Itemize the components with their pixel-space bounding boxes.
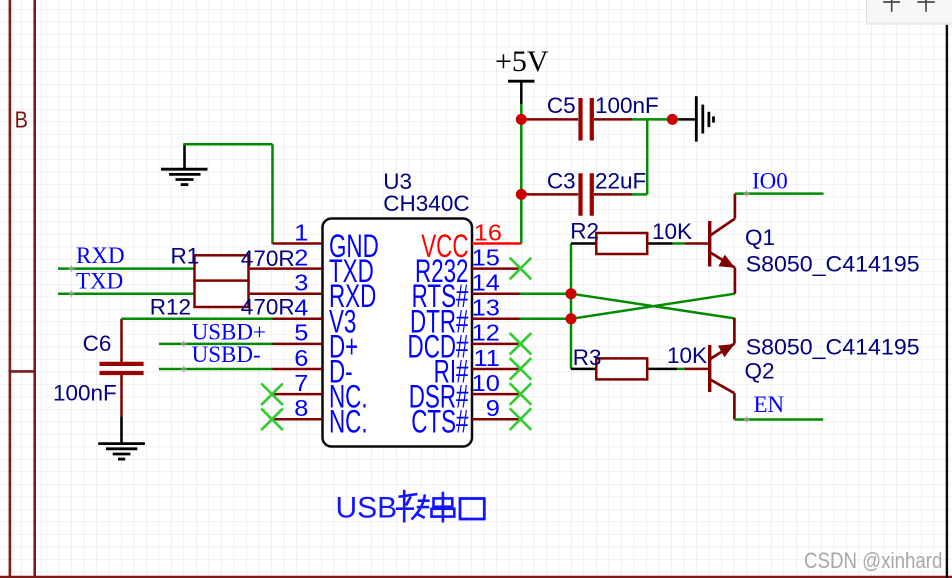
pin 12 — [472, 343, 520, 346]
svg-text:TXD: TXD — [76, 268, 123, 293]
svg-text:22uF: 22uF — [595, 169, 646, 194]
svg-text:100nF: 100nF — [53, 380, 117, 405]
svg-text:CSDN @xinhard: CSDN @xinhard — [804, 550, 942, 574]
Q2 emitter arrow — [718, 344, 735, 357]
toolbar plus icon 2 — [917, 0, 934, 12]
svg-text:R12: R12 — [150, 295, 191, 320]
svg-text:RXD: RXD — [76, 243, 125, 268]
svg-text:USBD+: USBD+ — [192, 319, 266, 344]
pin 3 RXD — [249, 292, 323, 295]
svg-text:R1: R1 — [171, 244, 200, 269]
svg-text:10K: 10K — [667, 343, 707, 368]
X pin 7 — [261, 383, 283, 405]
wire V3 — [122, 318, 273, 321]
resistor R3 wires — [571, 368, 596, 371]
svg-text:470R: 470R — [241, 295, 295, 320]
resistor R2 body — [596, 233, 647, 254]
hand-drawn 转 — [396, 490, 430, 523]
svg-text:NC.: NC. — [329, 404, 368, 440]
IC U3 right pins 15..9 — [472, 269, 520, 420]
capacitor C6 plates — [100, 362, 144, 366]
svg-text:8: 8 — [294, 396, 308, 422]
svg-text:1: 1 — [294, 220, 308, 246]
wire D- — [159, 368, 273, 371]
pin 9 — [472, 418, 520, 421]
pin 5 D+ — [273, 343, 323, 346]
sheet border left vertical line 2 — [33, 0, 36, 578]
svg-text:S8050_C414195: S8050_C414195 — [746, 334, 920, 360]
wire TXD — [58, 292, 195, 295]
svg-text:Q2: Q2 — [745, 359, 775, 384]
junction dot +5V/C5 — [516, 114, 527, 125]
junction dot C5/ground — [667, 114, 678, 125]
svg-text:USBD-: USBD- — [192, 342, 261, 367]
svg-text:10K: 10K — [652, 219, 692, 244]
capacitor C3 — [526, 193, 578, 196]
tiny wire anchor ticks — [69, 191, 750, 423]
svg-text:R2: R2 — [570, 219, 599, 244]
X pin 11 — [510, 358, 532, 380]
X pin 9 — [510, 408, 532, 430]
svg-text:14: 14 — [472, 270, 500, 296]
svg-text:12: 12 — [472, 321, 500, 347]
svg-text:C3: C3 — [547, 169, 576, 194]
resistor R2 wires — [571, 242, 596, 245]
svg-text:9: 9 — [486, 396, 500, 422]
hand-drawn 串 — [432, 492, 455, 523]
svg-text:+5V: +5V — [495, 45, 549, 78]
svg-text:CTS#: CTS# — [411, 404, 469, 440]
Q1 emitter arrow — [718, 255, 735, 268]
svg-text:4: 4 — [294, 295, 308, 321]
svg-text:470R: 470R — [241, 246, 295, 271]
pin 4 V3 — [273, 318, 323, 321]
pin 10 — [472, 393, 520, 396]
wire D+ — [159, 343, 273, 346]
capacitor C5 — [526, 118, 578, 121]
pin 15 — [472, 267, 520, 270]
ground (right of C5, rotated) — [679, 96, 714, 141]
svg-text:C5: C5 — [547, 93, 576, 118]
pin 2 TXD — [249, 267, 323, 270]
svg-text:R3: R3 — [573, 345, 602, 370]
no-connect X marks — [261, 258, 531, 430]
wire C5/C3 branch vertical — [646, 119, 649, 194]
svg-text:15: 15 — [472, 245, 500, 271]
pin 13 — [472, 318, 520, 321]
wire pin13 to node — [520, 318, 572, 321]
svg-text:C6: C6 — [83, 331, 112, 356]
svg-text:B: B — [15, 106, 28, 133]
wire C3 right — [632, 193, 647, 196]
svg-text:16: 16 — [474, 220, 502, 246]
svg-text:5: 5 — [294, 321, 308, 347]
svg-text:USB: USB — [336, 492, 398, 525]
wire pin14 to node — [520, 292, 572, 295]
capacitor C6 pin down — [120, 375, 123, 417]
pin 1 GND — [273, 242, 323, 245]
wire diagonal pin13 to Q1 emitter — [571, 294, 735, 319]
junction dot node DTR — [566, 313, 577, 324]
X pin 12 — [510, 333, 532, 355]
resistor R1 (box) — [195, 255, 249, 281]
pin 6 D- — [273, 368, 323, 371]
toolbar plus icon 1 — [883, 0, 900, 12]
junction dot +5V/C3 — [516, 189, 527, 200]
wire +5V vertical — [520, 104, 523, 244]
pin 7 NC — [273, 393, 323, 396]
svg-text:S8050_C414195: S8050_C414195 — [746, 251, 920, 277]
wire EN — [734, 418, 823, 421]
wire RXD — [58, 267, 195, 270]
svg-text:10: 10 — [472, 371, 500, 397]
wire vertical node column — [570, 244, 573, 369]
sheet border bottom line — [0, 576, 952, 578]
resistor R12 (box) — [195, 281, 249, 307]
junction dot node RTS — [566, 288, 577, 299]
svg-text:CH340C: CH340C — [383, 191, 469, 216]
pin 16 VCC wire (red) — [472, 242, 522, 245]
IC U3 left pins — [249, 244, 323, 420]
pin 8 NC — [273, 418, 323, 421]
sheet border left vertical line 1 — [9, 0, 12, 578]
capacitor C6 pin up — [120, 319, 123, 363]
sheet border right black line — [946, 24, 948, 578]
svg-text:Q1: Q1 — [745, 225, 775, 250]
hand-drawn 口 — [460, 499, 484, 520]
resistor R3 body — [596, 358, 647, 379]
svg-text:3: 3 — [294, 270, 308, 296]
svg-text:11: 11 — [473, 346, 499, 372]
wire gnd vertical to pin1 row — [271, 144, 274, 244]
svg-text:IO0: IO0 — [752, 168, 788, 193]
svg-text:6: 6 — [294, 346, 308, 372]
transistor Q1 — [684, 194, 735, 294]
pin 14 — [472, 292, 520, 295]
X pin 8 — [261, 409, 283, 431]
toolbar panel top right — [867, 0, 952, 25]
svg-text:13: 13 — [472, 295, 500, 321]
wire IO0 — [735, 192, 824, 195]
wire diagonal pin14 to Q2 emitter — [571, 294, 734, 319]
X pin 10 — [510, 383, 532, 405]
svg-text:100nF: 100nF — [595, 93, 659, 118]
svg-text:EN: EN — [754, 392, 785, 417]
op IC U3 body — [323, 219, 473, 447]
ground (below C6) — [98, 416, 145, 459]
pin 11 — [472, 368, 520, 371]
wire C5 right — [632, 118, 679, 121]
wire gnd to pin1 (horizontal) — [183, 143, 272, 146]
svg-text:7: 7 — [294, 371, 308, 397]
sheet border zone tick — [9, 370, 36, 373]
transistor Q2 — [684, 318, 734, 420]
ground (top center) — [161, 144, 208, 184]
X pin 15 — [510, 258, 532, 280]
svg-text:2: 2 — [294, 245, 308, 271]
